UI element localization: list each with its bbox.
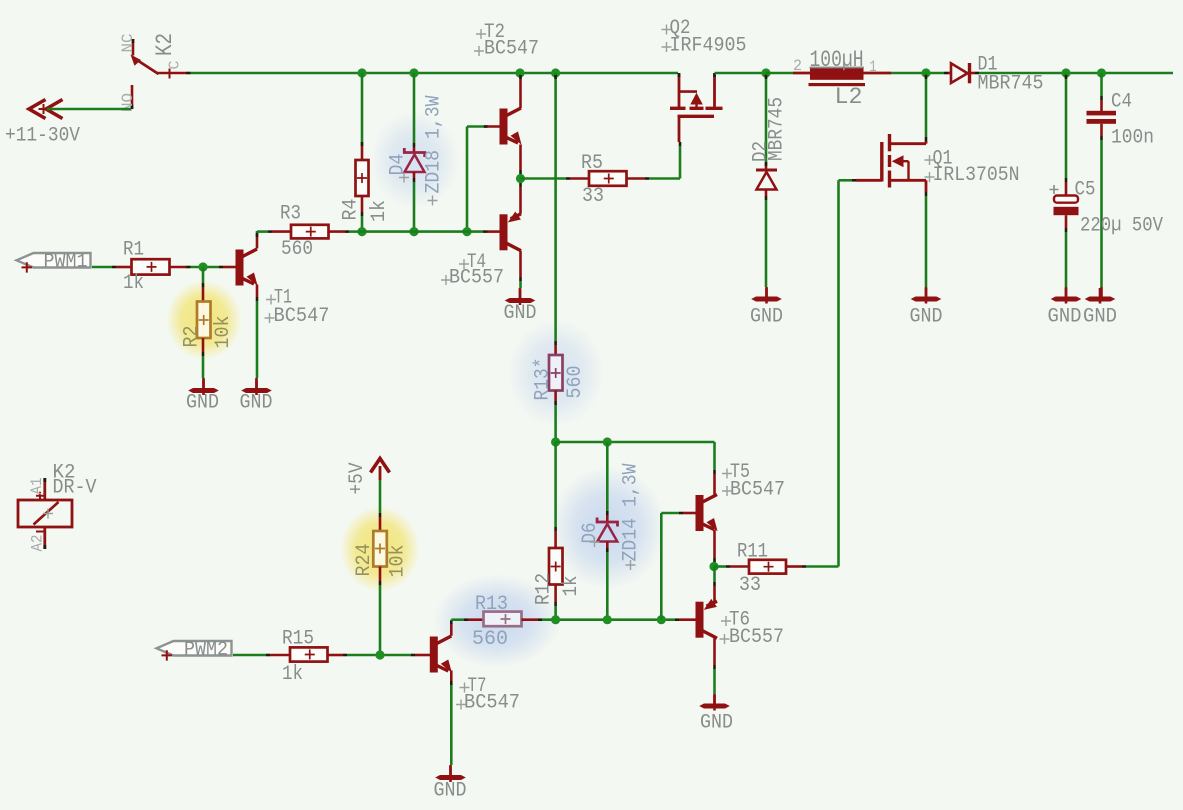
transistor T6 BC557 (PNP) [696, 599, 718, 638]
ground under T6 [713, 694, 716, 705]
highlight glow (yellow) behind R2 [166, 280, 242, 360]
svg-text:BC547: BC547 [484, 38, 539, 61]
svg-text:PWM1: PWM1 [44, 251, 88, 273]
wire T4 collector down to GND [519, 251, 522, 277]
svg-text:33: 33 [739, 574, 761, 597]
wire from C4 down to GND [1100, 124, 1103, 136]
wire from R2 down to GND [202, 338, 205, 352]
transistor T1 BC547 [236, 249, 258, 286]
wire from +5V arrow down to R24 [379, 480, 382, 513]
wire T6 emitter up to output node [713, 567, 716, 583]
svg-text:1: 1 [870, 58, 877, 76]
wire from corner down to T5 collector [713, 442, 716, 470]
wire: distribution rail to T5 collector corner [556, 441, 715, 444]
wire T7 collector up to R13 corner [450, 624, 453, 636]
wire from D4 down to base-rail junction [413, 172, 416, 178]
wire Q1 gate to corner [852, 179, 856, 182]
svg-text:A1: A1 [28, 478, 46, 495]
node: rail/R4 [357, 68, 366, 77]
svg-text:GND: GND [750, 306, 783, 329]
highlight glow (blue) behind R13* [508, 319, 604, 427]
wire from rail down to C5 [1065, 73, 1068, 178]
schottky diode D1 [944, 63, 979, 83]
ground under D2 [765, 287, 768, 298]
svg-text:GND: GND [910, 306, 943, 329]
svg-text:PWM2: PWM2 [184, 639, 228, 661]
wire from D2 down to GND [765, 190, 768, 196]
svg-text:R1: R1 [123, 239, 144, 262]
wire: rail from L2 to D1 [891, 72, 944, 75]
wire T6 collector down to GND [713, 638, 716, 665]
+5V supply arrow [371, 459, 390, 481]
svg-text:R13*: R13* [532, 358, 555, 401]
wire from rail down to D4 [413, 73, 416, 143]
wire: top rail from switch C to Q2 source [186, 72, 191, 75]
highlight glow (blue) behind R13 [433, 574, 561, 668]
resistor R2 (highlighted) [197, 302, 211, 339]
transistor T7 BC547 [430, 636, 452, 673]
wire from output node to R11 [714, 565, 726, 568]
node: rail/D2 [761, 68, 770, 77]
ground under T4 [519, 288, 522, 299]
svg-text:BC547: BC547 [464, 692, 520, 715]
resistor R13* (highlighted) [549, 355, 563, 391]
svg-text:+5V: +5V [346, 463, 369, 495]
svg-text:IRL3705N: IRL3705N [933, 164, 1020, 187]
svg-text:R4: R4 [340, 199, 363, 221]
wire from R13* down to distribution node [554, 391, 557, 402]
node: rail/D4 [409, 68, 418, 77]
node: rail/T2 collector [515, 68, 524, 77]
svg-text:R3: R3 [280, 203, 301, 226]
ground under T7 [449, 765, 452, 776]
resistor R3 [268, 230, 272, 233]
ground under C4 [1100, 287, 1103, 298]
wire from R11 right up to Q1 gate column [806, 565, 839, 568]
svg-text:D4: D4 [387, 154, 410, 176]
wire corner from T7 collector to R13 [450, 620, 453, 621]
svg-text:1k: 1k [560, 576, 583, 597]
node: R15/R24/T7 base [375, 650, 384, 659]
ground under R2 [202, 378, 205, 388]
svg-text:D6: D6 [579, 523, 602, 544]
node: rail/C4 [1097, 68, 1106, 77]
svg-text:560: 560 [564, 366, 587, 399]
svg-text:GND: GND [240, 392, 273, 415]
wire T7 emitter down to GND [450, 671, 453, 682]
resistor R4 [356, 160, 369, 196]
node: base-rail/T5-T6 tie [657, 615, 666, 624]
svg-text:R24: R24 [353, 544, 376, 577]
svg-text:IRF4905: IRF4905 [670, 35, 747, 58]
transistor T2 BC547 [500, 108, 522, 145]
node: base-rail/T2 tie [462, 227, 471, 236]
wire T4 emitter up to driver node [519, 179, 522, 184]
wire from R12 down to base rail [554, 585, 557, 603]
resistor R12 [549, 548, 563, 585]
svg-text:1k: 1k [282, 663, 303, 686]
svg-text:MBR745: MBR745 [978, 73, 1044, 96]
svg-text:R12: R12 [533, 573, 556, 605]
node: rail/C5 [1061, 68, 1070, 77]
net flag PWM2 [157, 641, 232, 661]
node: R1/R2/T1 base [198, 262, 207, 271]
wire from R4 down to base-rail junction [361, 196, 364, 212]
wire: tie from T5 base down to lower base rail [660, 513, 663, 620]
node: driver output T2/T4 emitters [516, 174, 525, 183]
zener diode D6 [597, 518, 617, 527]
wire from PWM2 flag to R15 [233, 654, 266, 657]
transistor T5 BC547 [696, 495, 718, 532]
svg-text:R15: R15 [282, 628, 314, 651]
wire from D6 down to base rail [606, 542, 609, 549]
svg-text:10k: 10k [212, 316, 235, 349]
wire: base rail from T1 collector corner to T4 base [256, 231, 259, 237]
node: base-rail/R12 [551, 615, 560, 624]
svg-text:2: 2 [793, 57, 802, 75]
node: rail/R13* column [551, 68, 560, 77]
wire from R24 down to PWM2 line [379, 567, 382, 582]
highlight glow (blue) behind D6 [550, 466, 666, 590]
svg-text:ZD14 1,3W: ZD14 1,3W [620, 464, 643, 562]
wire: lower base rail from R13 to T6 base [542, 618, 675, 621]
resistor R24 (highlighted) [373, 531, 387, 567]
wire T2 collector to rail [519, 78, 522, 109]
svg-text:33: 33 [582, 185, 604, 208]
svg-text:NC: NC [119, 34, 137, 53]
svg-text:ZD18 1,3W: ZD18 1,3W [423, 96, 446, 194]
svg-text:BC557: BC557 [729, 626, 784, 649]
svg-text:560: 560 [281, 238, 313, 261]
svg-text:560: 560 [472, 628, 508, 651]
highlight glow (blue) behind D4 [370, 111, 460, 209]
polarized capacitor C5 [1054, 196, 1079, 216]
wire: rail from Q2 drain to L2 [715, 72, 767, 75]
svg-text:1k: 1k [368, 200, 391, 222]
switch K2 (top) [131, 39, 187, 109]
wire T1 collector up to R3 corner [256, 237, 259, 249]
svg-text:C4: C4 [1111, 91, 1132, 114]
node: base-rail/D6 [603, 615, 612, 624]
resistor R13 (highlighted) [464, 618, 468, 621]
svg-text:R2: R2 [181, 326, 204, 348]
schottky diode D2 [756, 169, 777, 172]
node: distribution/D6 [603, 437, 612, 446]
svg-text:K2: K2 [152, 33, 178, 56]
wire from R5 to Q2 gate corner [649, 177, 680, 180]
+11-30V supply arrow [29, 100, 63, 119]
wire from rail down to Q1 drain [925, 73, 928, 137]
wire from Q1 gate corner down to R11 [837, 180, 840, 566]
wire from node down to R2 [202, 267, 205, 283]
svg-text:GND: GND [1083, 306, 1117, 329]
svg-text:BC547: BC547 [730, 479, 785, 502]
p-channel MOSFET Q2 IRF4905 [670, 73, 723, 142]
net flag PWM1 [17, 253, 91, 273]
resistor R1 [112, 266, 116, 269]
wire from node down to D6 [606, 442, 609, 511]
wire from R1 to T1 base [191, 266, 220, 269]
wire from rail down to R4 [361, 73, 364, 146]
wire from driver node to R5 [521, 177, 567, 180]
svg-text:R5: R5 [581, 152, 603, 175]
node: T5/T6 emitters and R11 [709, 562, 718, 571]
wire from rail down to C4 [1100, 73, 1103, 96]
svg-text:A2: A2 [29, 535, 47, 552]
wire T2 emitter down to driver node [519, 145, 522, 171]
highlight glow (yellow) behind R24 [340, 506, 420, 592]
svg-text:220µ 50V: 220µ 50V [1080, 215, 1163, 238]
resistor R15 [266, 654, 270, 657]
svg-text:DR-V: DR-V [53, 477, 97, 500]
svg-text:BC557: BC557 [449, 267, 504, 290]
svg-text:100µH: 100µH [810, 47, 864, 73]
n-channel MOSFET Q1 IRL3705N [856, 134, 926, 192]
zener diode D4 [404, 148, 424, 157]
svg-text:GND: GND [434, 780, 467, 803]
svg-text:R13: R13 [475, 593, 508, 616]
node: R13*/R12 junction [551, 437, 560, 446]
resistor R11 [749, 560, 786, 574]
resistor R5 [566, 177, 570, 180]
svg-text:L2: L2 [835, 84, 863, 110]
svg-text:MBR745: MBR745 [766, 97, 789, 161]
wire from node down to R12 [554, 442, 557, 527]
relay coil K2 DR-V [18, 478, 72, 549]
wire T1 emitter down to GND [256, 285, 259, 298]
svg-text:GND: GND [1048, 306, 1082, 329]
svg-text:GND: GND [186, 392, 219, 415]
wire Q1 source to GND [925, 192, 928, 196]
inductor L2 [793, 67, 891, 86]
wire from +11-30V arrow to K2 NO pin [47, 108, 131, 111]
wire: rail from D1 to right edge [979, 72, 1173, 75]
node: base-rail/D4 [409, 227, 418, 236]
capacitor C4 [1087, 111, 1117, 124]
transistor T4 BC557 (PNP) [500, 212, 522, 251]
svg-text:100n: 100n [1111, 127, 1154, 150]
svg-text:GND: GND [700, 712, 733, 735]
wire T2 base to tie-down column [484, 125, 501, 128]
svg-text:+11-30V: +11-30V [5, 125, 80, 148]
svg-text:BC547: BC547 [274, 305, 330, 328]
svg-text:R11: R11 [737, 541, 768, 564]
wire T5 emitter down to output node [713, 530, 716, 559]
ground under Q1 [925, 287, 928, 298]
svg-text:GND: GND [504, 302, 537, 325]
svg-text:1k: 1k [123, 272, 144, 295]
wire from rail down to D2 [765, 73, 768, 166]
svg-text:10k: 10k [387, 545, 410, 578]
svg-text:C: C [167, 61, 184, 70]
node: base-rail/R4 [357, 227, 366, 236]
ground under C5 [1065, 287, 1068, 298]
wire from R15 to T7 base [347, 654, 411, 657]
node: rail/Q1 drain [921, 68, 930, 77]
wire: long column from rail down to R13* [554, 73, 557, 341]
wire from PWM1 flag to R1 [92, 266, 112, 269]
ground under T1 [255, 378, 258, 388]
svg-text:C5: C5 [1075, 179, 1096, 202]
wire T5 collector pin [713, 474, 716, 495]
wire from C5 down to GND [1065, 215, 1068, 228]
wire: tie-down column from T2 base to base rail [466, 127, 469, 233]
